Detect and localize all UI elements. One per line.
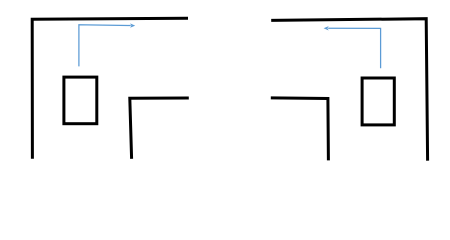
left figure: rectangle box	[64, 77, 97, 124]
right figure: rectangle box	[362, 78, 394, 125]
right figure: inner wall corner (horizontal + vertical)	[271, 98, 329, 160]
right figure: outer wall corner (top + right walls)	[271, 19, 427, 161]
left figure: blue arrowhead pointing right	[130, 23, 135, 27]
left figure: blue elbow arrow (up then right)	[79, 25, 131, 67]
right figure: blue arrowhead pointing left	[324, 26, 329, 30]
left figure: outer wall corner (top + left walls)	[32, 18, 188, 159]
left figure: inner wall corner (horizontal + vertical)	[130, 98, 189, 159]
right figure: blue elbow arrow (up then left)	[328, 28, 380, 68]
